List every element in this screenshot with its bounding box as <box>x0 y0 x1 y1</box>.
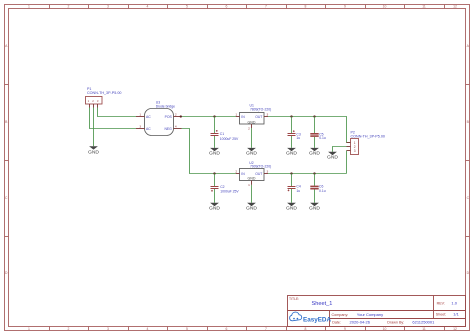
wire C2 top branch <box>214 174 216 187</box>
U3 pin 4 stub <box>174 128 182 130</box>
svg-text:10: 10 <box>383 327 387 331</box>
svg-text:7: 7 <box>265 5 267 9</box>
svg-text:Drawn By:: Drawn By: <box>387 321 404 325</box>
svg-text:7: 7 <box>265 327 267 331</box>
U3 pin 3 stub <box>136 128 145 130</box>
capacitor C2 <box>211 185 240 194</box>
wire P1 pin3 to bridge AC pin1 <box>98 108 137 117</box>
wire P1 pin2 to ground <box>93 108 95 147</box>
svg-text:10: 10 <box>383 5 387 9</box>
svg-text:AC: AC <box>146 127 151 131</box>
ground under C4 <box>286 203 297 211</box>
svg-text:2: 2 <box>175 113 177 117</box>
svg-text:Diode bridge: Diode bridge <box>156 105 175 109</box>
capacitor C1 <box>211 130 240 141</box>
svg-text:C6: C6 <box>319 185 323 189</box>
svg-text:1u: 1u <box>296 189 300 193</box>
svg-text:7909(TO-220): 7909(TO-220) <box>250 165 271 169</box>
connector P1 <box>86 87 122 108</box>
wire P2 pin3 down to -9V rail <box>346 151 348 174</box>
svg-text:GND: GND <box>309 151 320 156</box>
svg-text:11: 11 <box>422 5 426 9</box>
wire P2 pin2 to ground <box>333 147 347 152</box>
svg-text:C2: C2 <box>220 185 224 189</box>
svg-text:9: 9 <box>344 327 346 331</box>
ground under C2 <box>209 203 220 211</box>
svg-text:3: 3 <box>267 113 269 117</box>
ground under C3 <box>286 148 297 156</box>
svg-text:GND: GND <box>327 155 338 160</box>
C4 plus sign <box>288 189 290 191</box>
svg-text:4: 4 <box>147 5 149 9</box>
diode bridge U3 <box>136 101 182 136</box>
P2 pin 2 stub <box>347 146 351 148</box>
junction at C2 tap <box>213 172 215 174</box>
wire C2 to ground <box>214 189 216 203</box>
ground under P1 <box>88 146 99 154</box>
junction at C5 tap <box>313 115 315 117</box>
svg-text:GND: GND <box>246 151 257 156</box>
U3 pin 1 stub <box>136 116 145 118</box>
U2 pin 1 stub GND <box>251 181 253 185</box>
wire C4 top branch <box>291 174 293 187</box>
svg-text:TITLE:: TITLE: <box>289 297 299 301</box>
svg-text:OUT: OUT <box>255 172 262 176</box>
svg-text:CONN-TH_3P-P5.00: CONN-TH_3P-P5.00 <box>87 91 121 95</box>
svg-text:Sheet:: Sheet: <box>436 312 446 316</box>
junction at C6 tap <box>313 172 315 174</box>
svg-text:IN: IN <box>241 115 245 119</box>
svg-text:3: 3 <box>107 5 109 9</box>
svg-text:8: 8 <box>305 5 307 9</box>
svg-text:2: 2 <box>68 327 70 331</box>
svg-text:0.1u: 0.1u <box>319 189 326 193</box>
title block <box>288 296 466 327</box>
svg-text:2: 2 <box>248 126 250 130</box>
U1 pin 3 stub OUT <box>264 116 268 118</box>
svg-text:3: 3 <box>267 170 269 174</box>
junction at POS pin end <box>180 115 182 117</box>
wire C4 to ground <box>291 189 293 203</box>
P1 pin 3 stub <box>97 104 99 108</box>
svg-text:C1: C1 <box>220 132 224 136</box>
svg-text:6: 6 <box>226 327 228 331</box>
ground under U1 <box>246 148 257 156</box>
svg-text:REV:: REV: <box>437 301 445 305</box>
ground under C6 <box>309 203 320 211</box>
U3 pin 2 stub <box>174 116 182 118</box>
svg-text:7809(TO-220): 7809(TO-220) <box>250 107 271 111</box>
ground near P2 <box>327 152 338 160</box>
svg-text:5: 5 <box>186 327 188 331</box>
svg-text:1000uF 25V: 1000uF 25V <box>220 190 239 194</box>
wire C3 to ground <box>291 136 293 148</box>
svg-text:GND: GND <box>209 206 220 211</box>
capacitor C5 <box>310 132 326 140</box>
wire C5 top branch <box>314 117 316 134</box>
svg-text:1: 1 <box>139 113 141 117</box>
wire C1 top branch <box>214 117 216 134</box>
svg-text:6: 6 <box>226 5 228 9</box>
svg-text:GND: GND <box>286 206 297 211</box>
svg-text:AC: AC <box>146 115 151 119</box>
wire U1 GND pin to ground <box>251 128 253 148</box>
svg-text:CONN-TH_3P-P5.00: CONN-TH_3P-P5.00 <box>351 134 385 138</box>
ground under C1 <box>209 148 220 156</box>
svg-text:5: 5 <box>186 5 188 9</box>
ground under C5 <box>309 148 320 156</box>
svg-text:8: 8 <box>305 327 307 331</box>
svg-text:GND: GND <box>286 151 297 156</box>
svg-text:IN: IN <box>241 172 245 176</box>
frame top ticks <box>50 5 445 9</box>
svg-text:GND: GND <box>209 151 220 156</box>
svg-text:1: 1 <box>235 113 237 117</box>
wire bridge POS to U1 IN <box>182 116 237 118</box>
wire U2 OUT to P2 pin3 (-9V rail) <box>268 173 347 175</box>
capacitor C3 <box>288 130 301 140</box>
wire C6 to ground <box>314 190 316 203</box>
svg-text:GND: GND <box>246 206 257 211</box>
frame row letters <box>5 44 470 275</box>
svg-text:4: 4 <box>175 125 177 129</box>
wire bridge NEG to U2 IN (-9V feed) <box>182 129 237 174</box>
svg-text:6211250001: 6211250001 <box>412 320 435 325</box>
svg-text:3: 3 <box>107 327 109 331</box>
svg-text:GND: GND <box>248 120 256 124</box>
junction at C3 tap <box>290 115 292 117</box>
C2 plus sign <box>211 190 213 192</box>
regulator U2 7909 <box>235 161 271 187</box>
svg-text:4: 4 <box>147 327 149 331</box>
frame side ticks <box>5 85 470 237</box>
svg-text:1u: 1u <box>296 136 300 140</box>
U1 pin 2 stub GND <box>251 124 253 128</box>
svg-text:OUT: OUT <box>255 115 262 119</box>
capacitor C4 <box>288 185 301 194</box>
P2 pin 3 stub <box>347 150 351 152</box>
junction at C1 tap <box>213 115 215 117</box>
wire C3 top branch <box>291 117 293 134</box>
svg-text:C4: C4 <box>296 185 300 189</box>
junction at C4 tap <box>290 172 292 174</box>
svg-text:1.0: 1.0 <box>451 300 457 305</box>
svg-text:GND: GND <box>309 206 320 211</box>
svg-text:GND: GND <box>88 149 99 154</box>
svg-text:1: 1 <box>28 327 30 331</box>
svg-text:1: 1 <box>248 183 250 187</box>
frame bottom ticks <box>50 327 445 331</box>
svg-text:1: 1 <box>28 5 30 9</box>
P1 pin 1 stub <box>89 104 91 108</box>
svg-text:12: 12 <box>453 5 457 9</box>
U1 pin 1 stub IN <box>236 116 240 118</box>
wire C5 to ground <box>314 137 316 148</box>
svg-text:EasyEDA: EasyEDA <box>303 316 331 323</box>
EasyEDA logo <box>290 312 332 323</box>
svg-text:Date:: Date: <box>332 321 341 325</box>
wire C6 top branch <box>314 174 316 186</box>
svg-text:NEG: NEG <box>164 127 172 131</box>
connector P2 <box>347 130 385 154</box>
svg-text:2: 2 <box>235 170 237 174</box>
wire P1 pin1 to bridge AC pin3 <box>90 108 137 129</box>
svg-text:3: 3 <box>139 125 141 129</box>
svg-text:3: 3 <box>354 149 356 153</box>
svg-text:11: 11 <box>422 327 426 331</box>
svg-text:GND: GND <box>248 177 256 181</box>
P1 pin 2 stub <box>93 104 95 108</box>
svg-text:Company:: Company: <box>332 313 349 317</box>
svg-text:2020-04-26: 2020-04-26 <box>350 320 371 325</box>
wire C1 to ground <box>214 136 216 148</box>
svg-text:12: 12 <box>453 327 457 331</box>
svg-text:1000uF 25V: 1000uF 25V <box>220 137 239 141</box>
wire U2 GND pin to ground <box>251 185 253 203</box>
regulator U1 7809 <box>235 103 271 130</box>
wire U1 OUT to P2 pin1 (+9V rail) <box>268 117 351 143</box>
capacitor C6 <box>310 185 325 194</box>
P2 pin 1 stub <box>347 142 351 144</box>
U2 pin 2 stub IN <box>236 173 240 175</box>
U2 pin 3 stub OUT <box>264 173 268 175</box>
C3 plus sign <box>293 130 295 132</box>
svg-text:POS: POS <box>165 115 173 119</box>
svg-text:Sheet_1: Sheet_1 <box>312 301 333 307</box>
svg-text:9: 9 <box>344 5 346 9</box>
ground under U2 <box>246 203 257 211</box>
svg-text:2: 2 <box>68 5 70 9</box>
C1 plus sign <box>216 130 218 132</box>
svg-text:0.1u: 0.1u <box>319 136 326 140</box>
svg-text:1/1: 1/1 <box>453 311 459 316</box>
svg-text:Your Company: Your Company <box>357 312 383 317</box>
